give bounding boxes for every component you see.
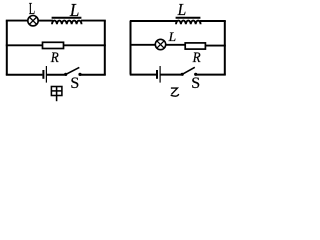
svg-text:L: L [177,0,187,19]
switch S right contact [78,73,81,76]
wire top rail left of 乙 inductor [130,20,177,22]
switch S blade (乙) [183,67,195,74]
wire bottom rail right (乙) [196,74,226,76]
circuit 乙 frame right vertical wire [224,21,226,75]
svg-text:L: L [29,0,35,18]
wire middle rail left (to lamp of 乙) [130,44,156,46]
circuit 乙 frame left vertical wire [130,21,132,75]
resistor R box (乙) [185,43,205,49]
inductor L core bar (乙) [176,17,201,19]
wire lamp to resistor (乙) [166,44,186,46]
lamp L (circle with X) [28,16,38,26]
battery cell [43,66,46,83]
switch S left contact [64,73,67,76]
resistor R box [43,42,64,48]
svg-text:L: L [168,29,177,44]
svg-text:R: R [192,50,201,66]
switch S left contact (乙) [181,73,184,76]
wire top rail right of 乙 inductor [200,20,226,22]
wire between lamp and inductor [38,20,53,22]
circuit 甲 frame left vertical wire [6,21,8,75]
wire top rail right [81,20,106,22]
label 甲 (drawn strokes) [51,87,62,102]
wire middle rail left (to resistor R) [6,44,43,46]
wire battery to switch [47,74,65,76]
svg-text:L: L [69,0,79,20]
wire bottom rail right [80,74,106,76]
battery cell (乙) [157,66,160,83]
wire bottom rail left (to battery) [6,74,43,76]
lamp L of 乙 (circle with X) [155,39,165,49]
switch S blade [66,67,79,74]
svg-text:S: S [70,75,79,92]
wire bottom rail left (乙) [130,74,156,76]
circuit 甲 frame right vertical wire [104,21,106,75]
inductor L core bar [52,17,82,19]
inductor L coil [52,21,82,25]
label 乙 (drawn strokes) [171,88,179,96]
svg-text:S: S [191,75,200,92]
wire top rail left (to lamp L) [6,20,28,22]
wire middle rail right [64,44,106,46]
svg-text:R: R [50,50,59,66]
switch S right contact (乙) [194,73,197,76]
inductor L coil (乙) [176,21,201,25]
wire battery to switch (乙) [160,74,181,76]
wire middle rail right (乙) [205,45,226,47]
